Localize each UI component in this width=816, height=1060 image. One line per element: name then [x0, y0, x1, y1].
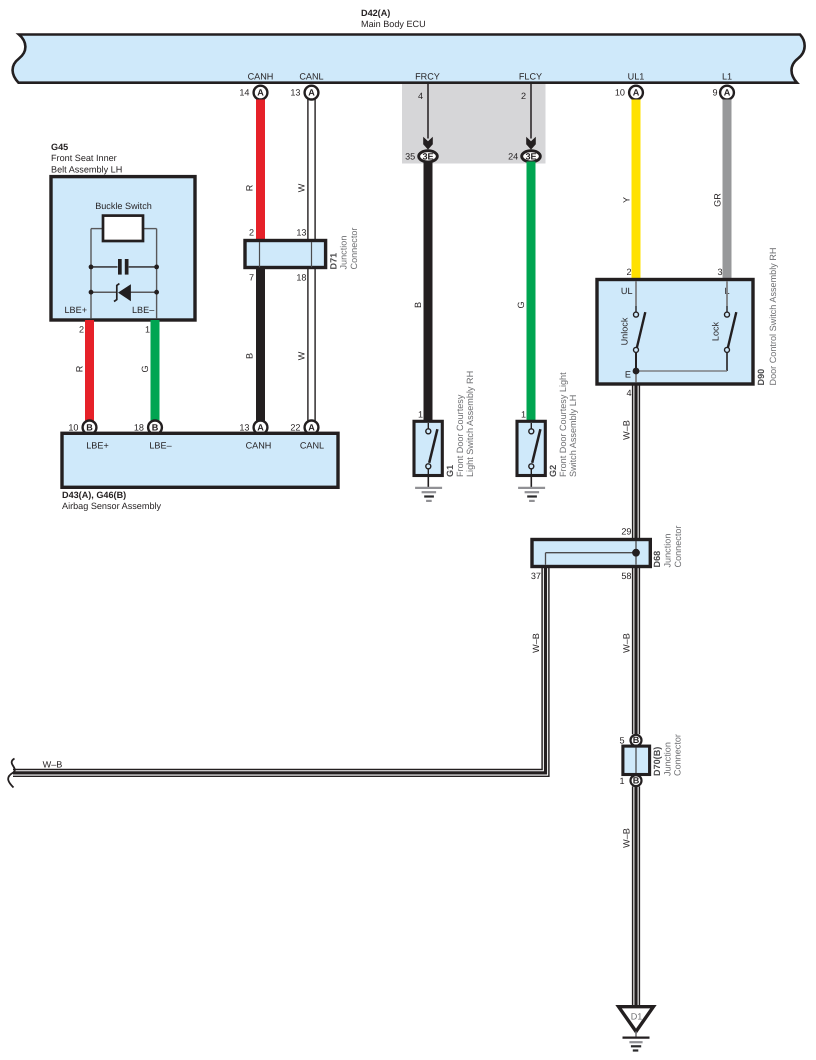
svg-text:2: 2: [626, 267, 631, 277]
wire R (red) LBE+ to airbag sensor: [85, 320, 94, 421]
connector pin 14(A) CANH: [239, 86, 267, 100]
svg-text:B: B: [633, 735, 640, 745]
switch G2 box: [517, 421, 545, 475]
svg-text:B: B: [86, 423, 93, 433]
junction connector D70(B): [623, 746, 650, 774]
svg-text:18: 18: [134, 422, 144, 432]
svg-text:18: 18: [296, 273, 306, 283]
svg-text:2: 2: [521, 91, 526, 101]
svg-text:G1: G1: [445, 465, 455, 477]
G2 switch symbol: [529, 423, 541, 474]
svg-text:1: 1: [521, 410, 526, 420]
Main Body ECU band D42(A): [13, 35, 805, 83]
junction connector D71: [245, 241, 326, 268]
svg-text:A: A: [724, 88, 731, 98]
svg-text:Junction: Junction: [339, 236, 349, 270]
ground point D1 triangle: [619, 1007, 654, 1032]
svg-text:CANL: CANL: [300, 441, 324, 451]
svg-text:W–B: W–B: [531, 633, 541, 653]
junction connector D68: [532, 540, 650, 567]
svg-text:Light Switch Assembly RH: Light Switch Assembly RH: [465, 371, 475, 477]
svg-text:E: E: [625, 369, 631, 379]
svg-text:1: 1: [619, 776, 624, 786]
svg-text:Front Door Courtesy Light: Front Door Courtesy Light: [558, 372, 568, 477]
svg-text:Connector: Connector: [673, 734, 683, 776]
svg-text:A: A: [308, 423, 315, 433]
internal rails: [91, 229, 157, 319]
svg-text:4: 4: [626, 388, 631, 398]
svg-text:UL: UL: [621, 286, 633, 296]
lock switch: [725, 281, 737, 371]
FRCY pin 4 line, arrow, connector 35(3E): [405, 84, 437, 162]
svg-text:W–B: W–B: [621, 420, 631, 440]
connector 5(B): [631, 735, 642, 746]
svg-text:10: 10: [68, 422, 78, 432]
connector pin 18(B): [134, 421, 162, 435]
svg-text:LBE+: LBE+: [65, 305, 88, 315]
svg-text:Main Body ECU: Main Body ECU: [361, 19, 426, 29]
svg-text:13: 13: [239, 422, 249, 432]
wire break squiggle at left: [8, 759, 15, 788]
svg-text:R: R: [75, 365, 85, 372]
wire B (black) CANH from D71 to airbag sensor: [256, 268, 265, 421]
gray shaded region: [402, 84, 546, 164]
svg-text:D1: D1: [631, 1011, 643, 1021]
svg-text:37: 37: [531, 571, 541, 581]
svg-text:2: 2: [249, 227, 254, 237]
svg-text:A: A: [633, 88, 640, 98]
svg-text:Door Control Switch Assembly R: Door Control Switch Assembly RH: [768, 248, 778, 386]
svg-text:B: B: [152, 423, 159, 433]
svg-text:Junction: Junction: [663, 534, 673, 568]
svg-text:13: 13: [296, 227, 306, 237]
wire W (white) CANL lower segment: [308, 268, 315, 421]
svg-text:Connector: Connector: [349, 228, 359, 270]
svg-text:58: 58: [621, 571, 631, 581]
svg-text:G: G: [140, 365, 150, 372]
svg-text:W–B: W–B: [621, 828, 631, 848]
svg-text:UL1: UL1: [628, 71, 645, 81]
svg-text:Front Seat Inner: Front Seat Inner: [51, 153, 117, 163]
wire W-B from D68 pin 58 to D70: [633, 567, 640, 735]
svg-text:CANL: CANL: [299, 71, 323, 81]
svg-text:Switch Assembly LH: Switch Assembly LH: [568, 395, 578, 477]
svg-text:B: B: [633, 776, 640, 786]
svg-text:G: G: [516, 301, 526, 308]
wire R (red) CANH from ECU to D71: [256, 100, 265, 242]
svg-text:14: 14: [239, 88, 249, 98]
svg-text:W–B: W–B: [43, 760, 63, 770]
wire Y (yellow) UL1 to D90: [632, 100, 641, 281]
svg-text:D90: D90: [756, 369, 766, 386]
svg-text:Airbag Sensor Assembly: Airbag Sensor Assembly: [62, 501, 162, 511]
svg-text:22: 22: [290, 422, 300, 432]
connector pin 13(A) CANL: [290, 86, 318, 100]
svg-text:Buckle Switch: Buckle Switch: [95, 201, 152, 211]
wire W (white) CANL upper segment: [308, 100, 315, 241]
svg-text:LBE+: LBE+: [86, 441, 109, 451]
svg-text:G2: G2: [548, 465, 558, 477]
svg-text:13: 13: [290, 88, 300, 98]
svg-text:3E: 3E: [525, 151, 536, 161]
switch G1 box: [414, 421, 442, 475]
svg-text:Front Door Courtesy: Front Door Courtesy: [455, 394, 465, 477]
svg-text:A: A: [308, 88, 315, 98]
svg-text:LBE–: LBE–: [149, 441, 172, 451]
capacitor: [89, 259, 159, 275]
svg-text:1: 1: [145, 325, 150, 335]
svg-text:D70(B): D70(B): [652, 747, 662, 776]
svg-text:W: W: [296, 183, 306, 192]
wire G (green) FLCY to G2: [527, 162, 536, 422]
svg-text:Connector: Connector: [673, 526, 683, 568]
svg-text:9: 9: [712, 88, 717, 98]
svg-text:29: 29: [621, 527, 631, 537]
svg-text:1: 1: [418, 410, 423, 420]
svg-text:G45: G45: [51, 142, 68, 152]
svg-text:Unlock: Unlock: [620, 317, 630, 345]
G1 switch symbol: [426, 423, 438, 474]
svg-text:CANH: CANH: [248, 71, 274, 81]
svg-text:CANH: CANH: [246, 441, 272, 451]
wire W-B from D70 to ground D1: [633, 786, 640, 1006]
svg-text:D68: D68: [652, 551, 662, 568]
svg-text:B: B: [413, 302, 423, 308]
connector pin 22(A): [290, 421, 318, 435]
connector pin 13(A): [239, 421, 267, 435]
G2 ground: [518, 475, 545, 501]
wire G (green) LBE- to airbag sensor: [151, 320, 160, 421]
svg-text:7: 7: [249, 273, 254, 283]
svg-text:D71: D71: [329, 253, 339, 270]
svg-text:4: 4: [418, 91, 423, 101]
connector pin 10(A) UL1: [615, 86, 643, 100]
svg-text:GR: GR: [713, 193, 723, 207]
wire B (black) FRCY to G1: [424, 162, 433, 422]
svg-text:A: A: [257, 88, 264, 98]
svg-text:A: A: [257, 423, 264, 433]
svg-text:W: W: [296, 351, 306, 360]
connector 1(B): [631, 775, 642, 786]
Airbag Sensor Assembly box: [62, 433, 338, 487]
G1 ground: [415, 475, 442, 501]
G45 Front Seat Inner Belt Assembly LH box: [51, 177, 195, 320]
svg-text:Lock: Lock: [711, 321, 721, 341]
svg-text:W–B: W–B: [621, 633, 631, 653]
svg-text:D42(A): D42(A): [361, 8, 390, 18]
svg-text:2: 2: [79, 325, 84, 335]
svg-text:LBE–: LBE–: [132, 305, 155, 315]
connector pin 10(B): [68, 421, 96, 435]
svg-text:10: 10: [615, 88, 625, 98]
svg-text:24: 24: [508, 152, 518, 162]
wire W-B from D68 pin 37 down and left to pigtail: [13, 567, 549, 777]
buckle switch box: [103, 216, 143, 241]
zener diode: [89, 284, 159, 302]
svg-text:FLCY: FLCY: [519, 71, 542, 81]
svg-text:L1: L1: [722, 71, 732, 81]
svg-text:Y: Y: [622, 197, 632, 203]
svg-text:FRCY: FRCY: [415, 71, 440, 81]
svg-text:3E: 3E: [422, 151, 433, 161]
svg-text:Belt Assembly LH: Belt Assembly LH: [51, 164, 122, 174]
svg-text:35: 35: [405, 152, 415, 162]
svg-text:R: R: [245, 184, 255, 191]
svg-text:D43(A), G46(B): D43(A), G46(B): [62, 490, 126, 500]
Door Control Switch Assembly RH box D90: [597, 280, 753, 385]
wire W-B from D90 pin 4 to D68: [633, 384, 640, 540]
node E junction: [625, 368, 727, 383]
unlock switch: [634, 281, 646, 371]
ground symbol: [623, 1032, 650, 1051]
svg-text:B: B: [245, 353, 255, 359]
svg-text:Junction: Junction: [662, 742, 672, 776]
wire GR (gray) L1 to D90: [723, 100, 732, 281]
svg-text:3: 3: [717, 267, 722, 277]
FLCY pin 2 line, arrow, connector 24(3E): [508, 84, 540, 162]
connector pin 9(A) L1: [712, 86, 733, 100]
svg-text:5: 5: [619, 736, 624, 746]
